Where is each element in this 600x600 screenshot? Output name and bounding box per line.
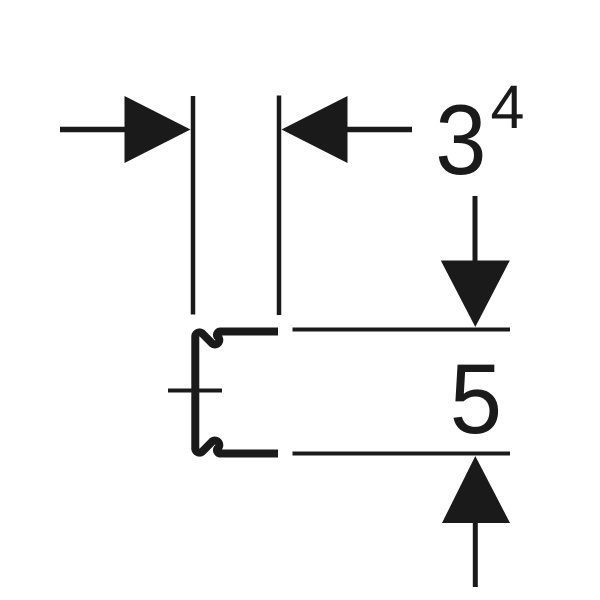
svg-text:3: 3: [435, 85, 486, 196]
svg-text:4: 4: [491, 73, 525, 141]
svg-text:5: 5: [450, 345, 502, 455]
